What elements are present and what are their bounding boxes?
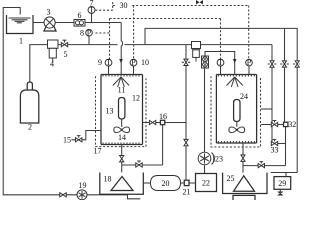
valve below reactor1 [120, 156, 124, 162]
junction box 32 [284, 122, 288, 126]
wire riser to box16 [162, 125, 164, 166]
signal dashed A down to P R2 [248, 6, 250, 60]
wire tank1 to pump3 [33, 22, 44, 24]
svg-text:4: 4 [50, 60, 54, 69]
wire reactor1 to box16 [143, 122, 187, 124]
svg-text:2: 2 [28, 123, 32, 132]
svg-text:24: 24 [240, 92, 248, 101]
svg-text:14: 14 [118, 133, 126, 142]
wire tank18 to capsule20 [143, 182, 150, 184]
wire valve33 line [272, 143, 286, 145]
box 22 [196, 174, 217, 192]
spray nozzle R2 [227, 77, 243, 87]
valve on bottom line [60, 193, 66, 197]
capsule 20 [151, 176, 181, 191]
pump 19 [77, 190, 87, 200]
wire tee down x284.5 [284, 28, 286, 122]
signal dashed A down to P10 [133, 6, 135, 60]
svg-text:30: 30 [120, 1, 128, 10]
valve on x284.5 [282, 61, 286, 67]
arrow spray inlet R2 [233, 59, 237, 63]
wire gas line [58, 44, 192, 46]
wire water drop to reactor1 with hop [121, 23, 122, 75]
reactor 2 jacket dashed [211, 76, 261, 147]
pump 23 [204, 165, 206, 174]
valve on x296.5 [295, 61, 299, 67]
thermowell capsule R2 [234, 100, 240, 122]
wire box32 line [261, 124, 284, 126]
wire jacket nozzle R2 [261, 108, 272, 110]
valve 33 [271, 141, 277, 145]
thermowell capsule 13 [119, 98, 125, 120]
wire branch up y28 line [145, 28, 297, 172]
tank 18 [100, 173, 144, 195]
svg-text:9: 9 [98, 58, 102, 67]
solenoid valve on line A [196, 0, 203, 4]
junction box 16 [160, 120, 164, 124]
reactor1 outlet wire [121, 145, 123, 173]
gauge P8 [88, 36, 90, 45]
valve between reactor1 and box16 [149, 120, 155, 124]
svg-text:P: P [247, 58, 252, 67]
valve 15 [76, 138, 82, 142]
signal dashed line A top [113, 5, 249, 7]
junction box 21 [181, 182, 196, 184]
svg-text:13: 13 [106, 107, 114, 116]
svg-text:P: P [87, 28, 92, 37]
tank 1 [7, 15, 34, 34]
valve 15 line into reactor1 [72, 131, 102, 140]
valve on branch [258, 164, 264, 168]
signal dashed line B [110, 18, 221, 20]
arrow spray inlet R1 [119, 59, 123, 63]
gauge T reactor2 [220, 66, 222, 75]
box 29 [274, 177, 291, 190]
svg-text:15: 15 [63, 136, 71, 145]
wire outlet branch right [243, 165, 286, 167]
gauge P10 [133, 66, 135, 75]
svg-text:8: 8 [80, 28, 84, 37]
valve on x186 lower [184, 139, 188, 145]
filter 4 [48, 40, 59, 48]
svg-text:16: 16 [159, 112, 167, 121]
svg-text:3: 3 [47, 8, 51, 17]
stirrer 14 [114, 127, 130, 133]
svg-text:P: P [131, 58, 136, 67]
wire pump3 to flowmeter6 [55, 22, 74, 24]
svg-text:33: 33 [271, 145, 279, 154]
signal dashed P8 to riser [96, 32, 110, 34]
svg-text:12: 12 [132, 94, 140, 103]
svg-text:1: 1 [19, 37, 23, 46]
svg-text:29: 29 [278, 179, 286, 188]
svg-text:10: 10 [141, 58, 149, 67]
svg-text:19: 19 [79, 181, 87, 190]
gauge T7 [91, 14, 93, 23]
signal dashed B down to T R2 [220, 19, 222, 60]
wire flowmeter to spray R2 [205, 52, 235, 75]
spray nozzle 11 [113, 77, 129, 87]
wire gas corner down x272 [271, 45, 273, 144]
wire gas line to canister [201, 44, 273, 46]
svg-text:25: 25 [227, 174, 235, 183]
stirrer R2 [229, 127, 245, 133]
gauge P reactor2 [248, 66, 250, 75]
reactor 2 vessel [216, 75, 256, 144]
svg-text:5: 5 [64, 50, 68, 59]
gauge T9 [108, 66, 110, 75]
flowmeter vertical [202, 56, 209, 68]
wire cylinder to gas line [30, 45, 48, 82]
svg-text:6: 6 [78, 11, 82, 20]
svg-text:18: 18 [104, 175, 112, 184]
svg-text:7: 7 [90, 0, 94, 8]
wire left return line [3, 8, 140, 199]
wire box32 riser down [285, 127, 287, 166]
signal dashed riser to T9 [109, 19, 111, 60]
signal dashed T7 riser [95, 2, 112, 10]
svg-text:32: 32 [288, 120, 296, 129]
valve 32-line [271, 122, 277, 126]
valve on branch [136, 163, 142, 167]
canister dryer [192, 42, 201, 49]
reactor 1 vessel [101, 75, 143, 145]
tank 25 [223, 173, 267, 194]
svg-text:T: T [106, 58, 111, 67]
svg-text:21: 21 [183, 188, 191, 197]
reactor2 outlet wire [242, 143, 244, 173]
svg-text:T: T [218, 58, 223, 67]
svg-text:20: 20 [162, 179, 170, 188]
valve 5 [61, 43, 67, 47]
wire outlet branch to box16 riser [122, 164, 163, 166]
valve on x272 [270, 61, 274, 67]
reactor 1 jacket dashed [96, 76, 147, 146]
flowmeter 6 [74, 20, 85, 27]
svg-text:22: 22 [202, 179, 210, 188]
valve below reactor2 [241, 155, 245, 161]
svg-text:11: 11 [118, 86, 126, 95]
stub below box29 [279, 189, 281, 192]
wire long vertical x186 [185, 45, 187, 181]
gas cylinder 2 [27, 82, 32, 90]
pump 3 [44, 27, 56, 32]
svg-text:23: 23 [215, 155, 223, 164]
wire y172.5 line [271, 173, 297, 177]
wire main water line [85, 22, 121, 24]
svg-text:17: 17 [94, 147, 102, 156]
heater under tank 25 [233, 195, 255, 201]
valve on x186 upper [184, 59, 188, 65]
wire flowmeter down to pump23 [204, 68, 206, 152]
